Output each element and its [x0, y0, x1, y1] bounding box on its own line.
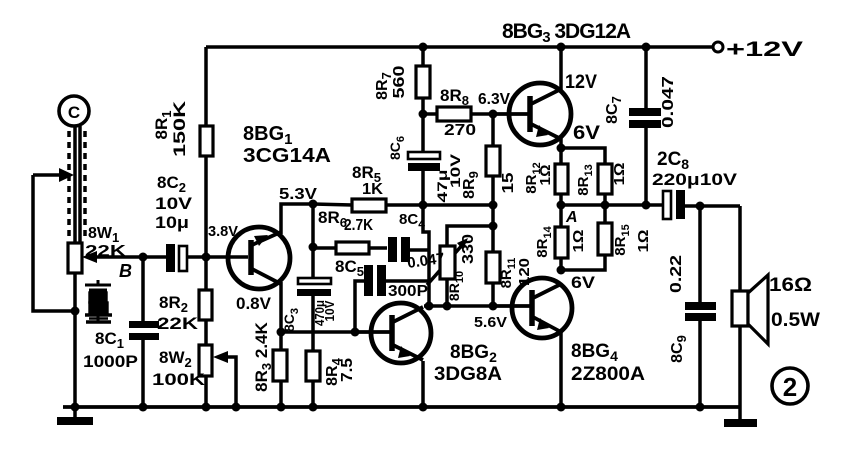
svg-text:1Ω: 1Ω: [635, 230, 652, 253]
svg-text:2Z800A: 2Z800A: [571, 364, 645, 385]
svg-text:3DG8A: 3DG8A: [434, 364, 502, 385]
svg-text:560: 560: [391, 65, 408, 98]
svg-text:5.3V: 5.3V: [279, 186, 317, 203]
svg-text:10V: 10V: [155, 194, 193, 213]
svg-text:16Ω: 16Ω: [769, 275, 812, 296]
svg-text:1000P: 1000P: [83, 352, 138, 371]
svg-text:0.047: 0.047: [660, 76, 677, 128]
svg-text:15: 15: [500, 172, 517, 193]
svg-text:2: 2: [783, 372, 797, 402]
svg-text:22K: 22K: [85, 243, 127, 260]
svg-text:6V: 6V: [573, 123, 600, 144]
svg-text:220μ10V: 220μ10V: [652, 170, 738, 189]
svg-text:120: 120: [516, 258, 533, 286]
svg-text:3.8V: 3.8V: [208, 223, 238, 240]
svg-text:8R3 2.4K: 8R3 2.4K: [252, 321, 274, 391]
svg-text:1Ω: 1Ω: [611, 163, 628, 186]
svg-text:150K: 150K: [170, 100, 189, 157]
svg-text:5.6V: 5.6V: [474, 314, 507, 331]
svg-text:3CG14A: 3CG14A: [243, 145, 331, 167]
svg-text:A: A: [565, 209, 578, 226]
svg-text:0.5W: 0.5W: [771, 310, 820, 331]
svg-text:7.5: 7.5: [339, 358, 356, 382]
svg-text:300P: 300P: [388, 283, 428, 300]
svg-text:12V: 12V: [565, 72, 597, 93]
svg-text:2.7K: 2.7K: [344, 217, 373, 234]
svg-text:330: 330: [460, 234, 477, 264]
svg-text:1K: 1K: [362, 181, 383, 198]
svg-text:8BG3 3DG12A: 8BG3 3DG12A: [502, 20, 631, 46]
svg-text:10μ: 10μ: [155, 213, 189, 232]
svg-text:100K: 100K: [152, 370, 206, 389]
svg-text:6.3V: 6.3V: [478, 91, 510, 108]
svg-text:22K: 22K: [157, 314, 199, 333]
svg-text:6V: 6V: [571, 273, 596, 292]
svg-text:B: B: [119, 261, 132, 281]
svg-text:10V: 10V: [322, 300, 337, 321]
svg-text:270: 270: [444, 122, 476, 139]
svg-text:1Ω: 1Ω: [537, 165, 554, 186]
svg-text:0.22: 0.22: [668, 255, 685, 293]
svg-text:0.8V: 0.8V: [236, 294, 272, 313]
svg-text:1Ω: 1Ω: [570, 230, 587, 253]
svg-text:C: C: [68, 103, 80, 122]
svg-text:+12V: +12V: [726, 38, 803, 61]
